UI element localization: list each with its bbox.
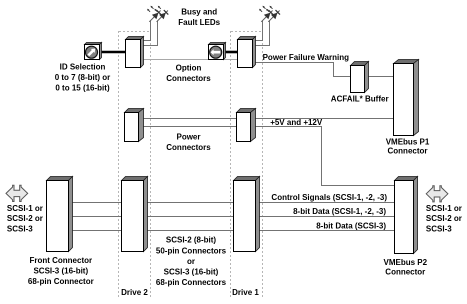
VMEbus P1 connector box (394, 60, 419, 136)
wire SCSI row1 drive1 to P2 (260, 202, 395, 204)
wire ACFAIL buffer to P1 (369, 76, 394, 78)
wire power top between connectors (144, 118, 237, 120)
wire ID selection drive2 (102, 51, 126, 54)
wire LED drive2 fault (144, 21, 158, 46)
svg-text:Control Signals (SCSI-1, -2, -: Control Signals (SCSI-1, -2, -3) (271, 193, 387, 202)
svg-text:Fault LEDs: Fault LEDs (178, 18, 220, 27)
label Busy and Fault LEDs (178, 8, 220, 27)
ACFAIL buffer box (351, 62, 369, 93)
wire option connectors (144, 59, 238, 61)
svg-text:ACFAIL* Buffer: ACFAIL* Buffer (331, 95, 389, 104)
SCSI double arrow right (426, 186, 448, 202)
wire SCSI row3 front to drive2 (73, 230, 122, 232)
svg-text:0 to 15 (16-bit): 0 to 15 (16-bit) (55, 83, 110, 92)
svg-text:Drive 2: Drive 2 (121, 288, 148, 297)
wire +5V +12V to P1 (256, 118, 394, 120)
drive1 power connector box (237, 109, 256, 142)
label 8-bit Data SCSI-1,-2,-3 (293, 207, 386, 216)
svg-text:68-pin Connector: 68-pin Connector (28, 277, 94, 286)
svg-text:SCSI-3: SCSI-3 (7, 224, 33, 233)
svg-text:68-pin Connectors: 68-pin Connectors (156, 278, 227, 287)
svg-text:+5V and +12V: +5V and +12V (270, 118, 323, 127)
wire SCSI row3 drive2 to drive1 (148, 230, 234, 232)
label VMEbus P2 Connector (384, 258, 428, 277)
svg-text:8-bit Data (SCSI-3): 8-bit Data (SCSI-3) (316, 221, 386, 230)
wire ID selection drive1 (226, 51, 238, 54)
drive 1 dotted boundary (231, 32, 263, 297)
svg-text:Busy and: Busy and (181, 8, 217, 17)
svg-text:SCSI-1 or: SCSI-1 or (7, 204, 43, 213)
SCSI double arrow left (6, 185, 28, 201)
drive 2 dotted boundary (119, 32, 151, 297)
wire SCSI row1 front to drive2 (73, 202, 122, 204)
label +5V and +12V (270, 118, 323, 127)
svg-text:SCSI-3 (16-bit): SCSI-3 (16-bit) (33, 267, 88, 276)
label ACFAIL* Buffer (331, 95, 389, 104)
svg-text:Option: Option (176, 64, 202, 73)
wire SCSI row3 drive1 to P2 (260, 230, 395, 232)
svg-text:Power: Power (176, 133, 200, 142)
label SCSI left (7, 204, 43, 233)
label SCSI right (426, 204, 462, 233)
LED D1b (266, 6, 280, 22)
svg-text:SCSI-1 or: SCSI-1 or (426, 204, 462, 213)
svg-text:SCSI-3 (16-bit): SCSI-3 (16-bit) (164, 268, 219, 277)
drive2 option connector box (126, 37, 144, 68)
svg-text:Connectors: Connectors (166, 74, 211, 83)
LED D2b (154, 6, 168, 22)
label Power Connectors (166, 133, 211, 153)
drive2 SCSI connector box (122, 177, 148, 252)
label Drive 2 (121, 288, 148, 297)
svg-text:VMEbus P1: VMEbus P1 (386, 137, 430, 146)
label drive SCSI connectors (156, 236, 227, 287)
svg-text:or: or (187, 257, 195, 266)
drive2 ID selector switch (85, 43, 102, 60)
wire power failure warning (256, 63, 351, 77)
label 8-bit Data SCSI-3 (316, 221, 386, 230)
svg-text:Drive 1: Drive 1 (232, 288, 259, 297)
label Front Connector (28, 256, 94, 286)
svg-text:Connector: Connector (385, 268, 425, 277)
LED D2a (147, 6, 161, 22)
svg-text:Connectors: Connectors (166, 143, 211, 152)
wire SCSI row2 front to drive2 (73, 216, 122, 218)
svg-text:SCSI-2 (8-bit): SCSI-2 (8-bit) (166, 236, 217, 245)
wire +5V +12V branch to P2 (256, 127, 395, 186)
wire LED drive1 busy (256, 21, 263, 41)
wire LED drive2 busy (144, 21, 151, 41)
LED D1a (259, 6, 273, 22)
label VMEbus P1 Connector (386, 137, 430, 155)
wire SCSI row2 drive1 to P2 (260, 216, 395, 218)
svg-text:SCSI-2 or: SCSI-2 or (426, 214, 462, 223)
svg-text:0 to 7 (8-bit) or: 0 to 7 (8-bit) or (55, 73, 111, 82)
svg-text:Front Connector: Front Connector (29, 256, 92, 265)
wire power bottom between connectors (144, 126, 237, 128)
svg-text:Power Failure Warning: Power Failure Warning (263, 53, 349, 62)
label Control Signals (271, 193, 387, 202)
label Drive 1 (232, 288, 259, 297)
drive1 option connector box (238, 37, 256, 68)
label Power Failure Warning (263, 53, 349, 62)
front connector box (47, 177, 73, 252)
svg-text:VMEbus P2: VMEbus P2 (384, 258, 428, 267)
svg-text:ID Selection: ID Selection (60, 62, 106, 71)
svg-text:SCSI-2 or: SCSI-2 or (7, 214, 43, 223)
drive1 ID selector switch (209, 43, 226, 60)
svg-text:Connector: Connector (388, 146, 428, 155)
label Option Connectors (166, 64, 211, 83)
svg-text:50-pin Connectors: 50-pin Connectors (156, 246, 227, 255)
wire SCSI row1 drive2 to drive1 (148, 202, 234, 204)
label ID Selection (55, 62, 111, 92)
svg-text:SCSI-3: SCSI-3 (426, 224, 452, 233)
wire SCSI row2 drive2 to drive1 (148, 216, 234, 218)
VMEbus P2 connector box (395, 177, 418, 254)
wire LED drive1 fault (256, 21, 270, 46)
drive2 power connector box (125, 109, 144, 142)
svg-text:8-bit Data (SCSI-1, -2, -3): 8-bit Data (SCSI-1, -2, -3) (293, 207, 386, 216)
drive1 SCSI connector box (234, 177, 260, 252)
